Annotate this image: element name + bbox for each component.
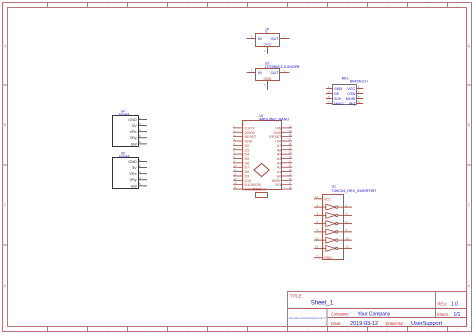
svg-text:VRy: VRy xyxy=(130,136,137,140)
svg-text:1.0: 1.0 xyxy=(451,301,458,307)
svg-text:1: 1 xyxy=(27,4,29,8)
svg-text:B: B xyxy=(468,123,471,127)
svg-text:2019-03-12: 2019-03-12 xyxy=(350,321,378,327)
svg-text:9: 9 xyxy=(347,328,349,332)
svg-text:Sheet:: Sheet: xyxy=(437,312,449,317)
svg-text:CE: CE xyxy=(334,92,340,96)
svg-text:3V3: 3V3 xyxy=(275,183,281,187)
svg-text:Your Company: Your Company xyxy=(358,312,391,318)
svg-text:VCC: VCC xyxy=(324,198,332,202)
svg-text:Company:: Company: xyxy=(331,311,349,316)
svg-text:12: 12 xyxy=(346,245,350,249)
svg-text:3: 3 xyxy=(107,328,109,332)
svg-text:VRy: VRy xyxy=(130,178,137,182)
svg-text:GND: GND xyxy=(264,77,272,81)
svg-text:6: 6 xyxy=(227,328,229,332)
svg-text:Joystick: Joystick xyxy=(119,154,130,158)
svg-text:D: D xyxy=(4,284,7,288)
svg-text:7: 7 xyxy=(267,328,269,332)
svg-text:UserSupport: UserSupport xyxy=(411,321,443,327)
svg-text:10: 10 xyxy=(386,328,389,332)
svg-text:GND: GND xyxy=(128,118,137,122)
svg-text:5V: 5V xyxy=(132,124,137,128)
svg-text:Date:: Date: xyxy=(331,321,342,326)
svg-text:10: 10 xyxy=(386,4,389,8)
svg-text:easyeda.com/UserSupport sch.1: easyeda.com/UserSupport sch.1 xyxy=(289,316,326,320)
svg-text:3: 3 xyxy=(251,35,253,39)
svg-text:3: 3 xyxy=(251,69,253,73)
svg-text:1/1: 1/1 xyxy=(454,312,461,318)
svg-text:C: C xyxy=(4,203,7,207)
svg-text:74HC04_HEX_INVERTER: 74HC04_HEX_INVERTER xyxy=(332,188,377,193)
svg-text:MISO: MISO xyxy=(334,102,344,106)
svg-text:8: 8 xyxy=(307,4,309,8)
svg-text:13: 13 xyxy=(315,245,319,249)
svg-text:Sheet_1: Sheet_1 xyxy=(311,300,334,307)
svg-text:10: 10 xyxy=(346,236,350,240)
svg-text:2: 2 xyxy=(264,83,266,87)
svg-text:2: 2 xyxy=(67,328,69,332)
svg-text:11: 11 xyxy=(426,4,429,8)
svg-text:GND: GND xyxy=(264,43,272,47)
svg-text:1: 1 xyxy=(27,328,29,332)
svg-text:2: 2 xyxy=(264,49,266,53)
svg-text:D13/SCK: D13/SCK xyxy=(253,188,269,192)
svg-text:12: 12 xyxy=(456,4,459,8)
svg-text:7: 7 xyxy=(267,4,269,8)
svg-text:5: 5 xyxy=(187,328,189,332)
svg-text:5: 5 xyxy=(187,4,189,8)
svg-text:6: 6 xyxy=(227,4,229,8)
svg-text:CSN: CSN xyxy=(347,92,355,96)
svg-text:1: 1 xyxy=(283,35,285,39)
svg-text:MOSI: MOSI xyxy=(346,97,355,101)
svg-text:GND: GND xyxy=(128,160,137,164)
svg-text:SCK: SCK xyxy=(334,97,342,101)
svg-text:GND: GND xyxy=(334,87,343,91)
svg-text:5V: 5V xyxy=(132,166,137,170)
svg-text:TITLE:: TITLE: xyxy=(290,293,303,298)
svg-text:OUT: OUT xyxy=(270,37,279,41)
svg-text:D: D xyxy=(468,284,471,288)
svg-text:SW: SW xyxy=(131,184,138,188)
svg-text:8: 8 xyxy=(307,328,309,332)
svg-text:VCC: VCC xyxy=(347,87,355,91)
svg-text:4: 4 xyxy=(147,328,149,332)
svg-text:IN: IN xyxy=(258,71,262,75)
svg-text:VRx: VRx xyxy=(130,172,137,176)
svg-text:Joystick: Joystick xyxy=(119,112,130,116)
svg-text:REV:: REV: xyxy=(438,301,448,306)
svg-text:IN: IN xyxy=(258,37,262,41)
svg-text:A: A xyxy=(468,45,471,49)
svg-text:11: 11 xyxy=(315,236,318,240)
svg-text:IRQ: IRQ xyxy=(349,102,356,106)
svg-text:12: 12 xyxy=(456,328,459,332)
svg-text:3: 3 xyxy=(107,4,109,8)
svg-text:OUT: OUT xyxy=(270,71,279,75)
svg-text:C: C xyxy=(468,203,471,207)
svg-text:A: A xyxy=(4,45,7,49)
svg-text:GND: GND xyxy=(324,256,332,260)
svg-text:B: B xyxy=(4,123,7,127)
svg-text:14: 14 xyxy=(315,195,319,199)
svg-text:4: 4 xyxy=(147,4,149,8)
svg-text:SW: SW xyxy=(131,142,138,146)
svg-text:9: 9 xyxy=(347,4,349,8)
svg-text:2: 2 xyxy=(67,4,69,8)
svg-text:NRF24L01+: NRF24L01+ xyxy=(350,80,368,84)
svg-text:11: 11 xyxy=(426,328,429,332)
svg-text:MK1: MK1 xyxy=(342,77,349,81)
svg-text:VRx: VRx xyxy=(130,130,137,134)
svg-text:ARDUINO_NANO: ARDUINO_NANO xyxy=(259,116,289,121)
svg-text:Drawn By:: Drawn By: xyxy=(386,321,404,326)
